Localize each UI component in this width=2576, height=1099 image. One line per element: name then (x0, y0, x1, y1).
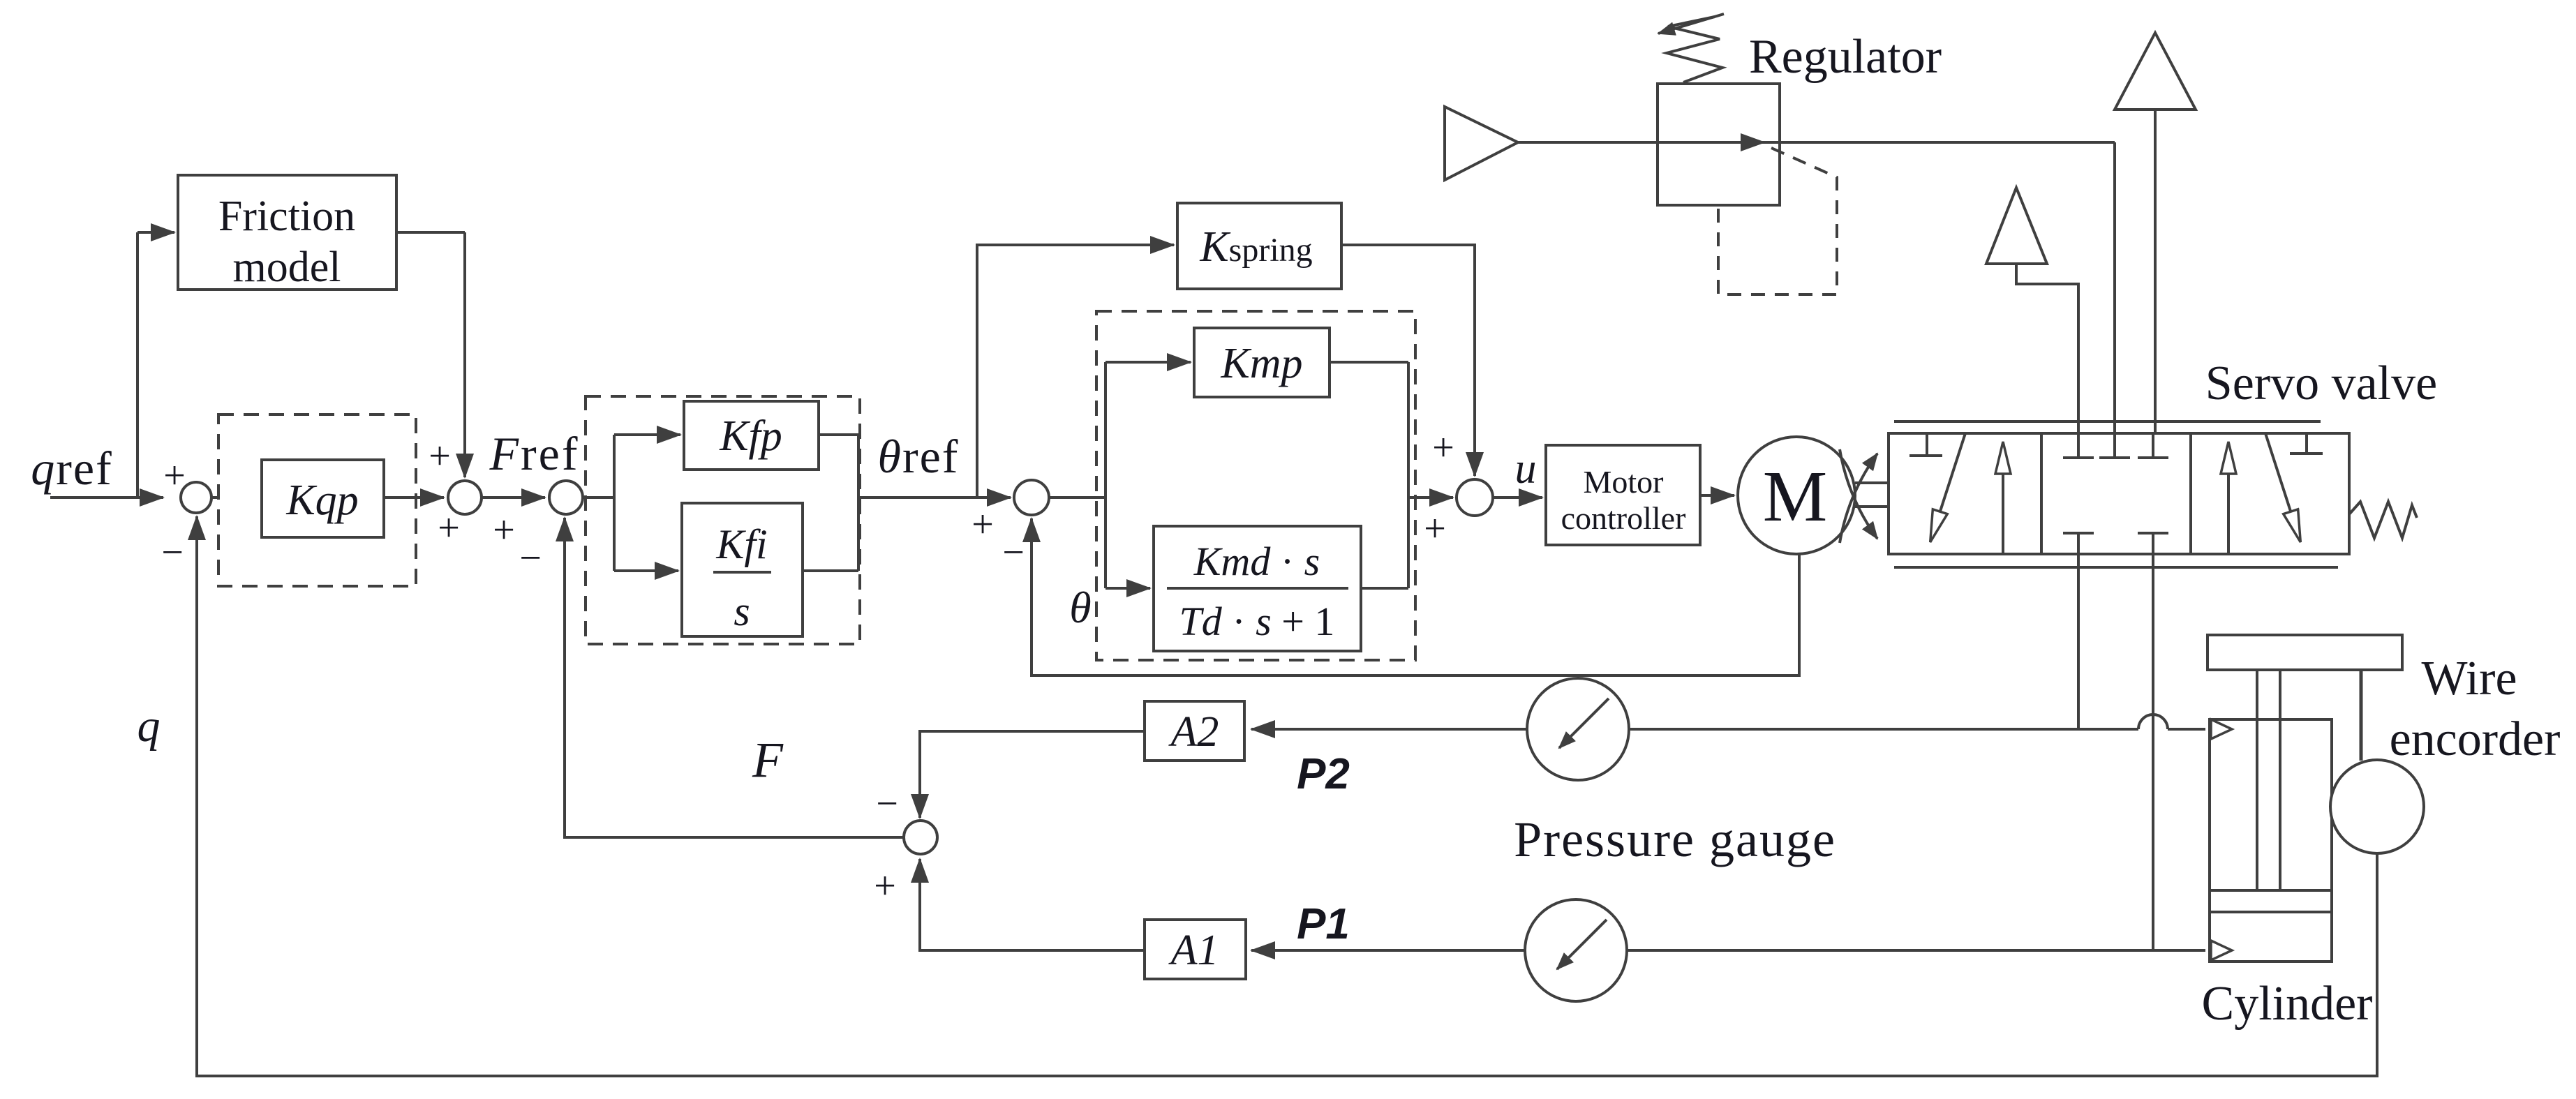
P2 line from valve to gauge (1630, 728, 2078, 731)
wire Kfi output (803, 569, 858, 572)
valve right chamber up arrow (2227, 442, 2230, 554)
S2 plus sign (bottom) (438, 507, 460, 550)
regulator label (1749, 30, 1942, 84)
S6 minus sign (876, 782, 898, 825)
svg-text:P1: P1 (1297, 900, 1350, 948)
wire Kmp/Kmd join vertical (1407, 362, 1410, 588)
svg-text:−: − (519, 537, 542, 580)
dashed box around Kmp,Kmd (1096, 311, 1415, 660)
svg-text:+: + (163, 454, 186, 498)
wire motor controller to M (1700, 494, 1734, 497)
valve right chamber blocked port (2290, 433, 2323, 454)
wire branch vertical (Kmp/Kmd input) (1104, 362, 1107, 588)
wire A1 to S6 (920, 859, 1145, 950)
valve divider left (2040, 433, 2043, 554)
wire branch to friction model (riser) (137, 232, 174, 498)
supply line through regulator (1518, 141, 2115, 144)
regulator spring symbol (1658, 14, 1724, 82)
svg-text:Wire: Wire (2421, 652, 2517, 705)
wire A2 to S6 (920, 731, 1145, 818)
node theta-ref label (878, 430, 960, 483)
pressure gauge 2 (1527, 678, 1629, 780)
svg-text:Motor: Motor (1584, 464, 1664, 500)
S4 plus sign (971, 503, 994, 546)
P2 line hop over valve line 2 (2078, 715, 2205, 729)
svg-text:encorder: encorder (2390, 712, 2561, 766)
svg-text:Cylinder: Cylinder (2202, 977, 2373, 1031)
regulator pilot dashed line (1718, 148, 1837, 294)
valve top port 3 (2138, 433, 2168, 458)
wire encoder label (2390, 652, 2561, 766)
svg-text:qref: qref (31, 442, 112, 495)
P1 line gauge to valve junction (1627, 949, 2153, 952)
valve top port 1 (2063, 433, 2094, 458)
svg-text:P2: P2 (1297, 750, 1350, 798)
wire branch vertical (Kfp/Kfi input) (613, 435, 616, 571)
wire Kmd output (1361, 587, 1408, 590)
wire Kfp output (819, 433, 858, 436)
block Motor controller (1546, 445, 1700, 545)
svg-text:−: − (161, 531, 184, 574)
node theta feedback label (1069, 583, 1091, 632)
wire Kqp to S2 (384, 496, 444, 499)
valve top port 2 (2099, 433, 2130, 458)
coupling arcs M to valve (1840, 449, 1889, 543)
wire S2 to S3 (482, 496, 545, 499)
svg-text:u: u (1515, 445, 1537, 493)
block Kfp (684, 401, 819, 470)
svg-text:Friction: Friction (218, 193, 355, 240)
svg-text:q: q (137, 701, 161, 752)
S3 plus sign (493, 509, 515, 552)
cylinder label (2202, 977, 2373, 1031)
S1 minus sign (161, 531, 184, 574)
valve bottom port 2 (2138, 533, 2168, 554)
summing junction S6 (904, 821, 937, 854)
node Fref label (489, 427, 579, 480)
summing junction S5 (1457, 479, 1493, 516)
S3 minus sign (519, 537, 542, 580)
valve line 1 down to P2 line (2077, 554, 2080, 729)
wire into Kmd (1105, 587, 1150, 590)
svg-text:Fref: Fref (489, 427, 579, 480)
valve top bar (1894, 420, 2321, 423)
summing junction S2 (448, 481, 482, 514)
block Kspring (1177, 203, 1341, 289)
valve left chamber blocked port (1909, 433, 1942, 456)
svg-text:+: + (493, 509, 515, 552)
wire into Kfp (614, 433, 680, 436)
svg-text:−: − (876, 782, 898, 825)
block Kmd s over Td s+1 (1154, 526, 1361, 651)
dashed box around Kfp,Kfi (586, 396, 860, 644)
svg-text:A1: A1 (1168, 927, 1219, 974)
node P1 label (1297, 900, 1350, 948)
wire regulator output down to valve (2113, 142, 2116, 433)
svg-text:model: model (233, 244, 341, 291)
P2 line into cylinder arrow (2211, 719, 2232, 739)
P1 line into cylinder arrow (2211, 941, 2232, 960)
wire S4 to branch (1049, 496, 1105, 499)
servo valve label (2205, 357, 2437, 410)
wire encoder circle (2330, 760, 2424, 853)
svg-text:+: + (874, 865, 896, 908)
wire S6 output to S3 (565, 518, 904, 837)
pressure gauge 1 (1525, 899, 1627, 1001)
cylinder piston (2210, 890, 2332, 912)
triangle source 3 (main supply) (2115, 33, 2196, 433)
wire Kspring output to S5 (1341, 245, 1475, 476)
wire into Kfi (614, 569, 678, 572)
dashed box around Kqp (218, 414, 416, 586)
block Kfi over s (682, 503, 803, 636)
svg-text:Td · s + 1: Td · s + 1 (1179, 599, 1335, 644)
valve return spring (2349, 502, 2417, 538)
valve left chamber diagonal arrow (1930, 433, 1965, 541)
summing junction S1 (181, 482, 211, 513)
block Kqp (262, 460, 384, 537)
svg-text:Pressure gauge: Pressure gauge (1514, 812, 1836, 867)
summing junction S3 (549, 481, 583, 514)
block Friction model (178, 175, 396, 291)
wire riser to Kspring (977, 245, 1174, 498)
svg-text:+: + (971, 503, 994, 546)
theta feedback wire (M to S4) (1032, 518, 1799, 675)
cylinder rod (2257, 670, 2280, 890)
cylinder cap (2208, 635, 2402, 670)
svg-text:controller: controller (1561, 500, 1686, 536)
S1 plus sign (163, 454, 186, 498)
wire join to S5 (1408, 496, 1453, 499)
block Kmp (1194, 328, 1330, 397)
node F label (752, 732, 784, 788)
wire Kfp/Kfi join vertical (857, 435, 860, 571)
S5 plus sign (top) (1432, 426, 1454, 470)
valve divider right (2189, 433, 2192, 554)
svg-text:−: − (1002, 531, 1025, 574)
valve bottom port 1 (2063, 533, 2094, 554)
node qref input label (31, 442, 112, 495)
wire S5 to motor controller (1493, 496, 1542, 499)
svg-text:Kqp: Kqp (285, 477, 358, 524)
svg-text:Kfp: Kfp (719, 412, 782, 460)
wire Kmp output (1330, 361, 1408, 364)
P2 line gauge to A2 (1251, 728, 1527, 731)
svg-text:Kfi: Kfi (715, 521, 767, 567)
wire q feedback (S1 bottom) (197, 516, 2377, 1076)
svg-text:F: F (752, 732, 784, 788)
summing junction S4 (1014, 480, 1049, 515)
S4 minus sign (1002, 531, 1025, 574)
valve right chamber diagonal arrow (2265, 433, 2300, 541)
svg-text:M: M (1763, 456, 1827, 537)
wire into Kmp (1105, 361, 1191, 364)
svg-text:Kmp: Kmp (1220, 340, 1302, 387)
triangle source 2 (1986, 188, 2078, 433)
valve body box (1889, 433, 2349, 554)
triangle source 1 (1445, 107, 1518, 180)
arrow inside regulator (1703, 141, 1764, 144)
svg-text:θref: θref (878, 430, 960, 483)
block A2 (1145, 701, 1244, 761)
cylinder body (2210, 719, 2332, 962)
wire S3 to branch (583, 496, 614, 499)
block A1 (1145, 920, 1246, 979)
svg-text:Servo valve: Servo valve (2205, 357, 2437, 410)
wire friction model output (396, 232, 465, 477)
P1 line from valve junction to cylinder (2153, 949, 2205, 952)
svg-text:Regulator: Regulator (1749, 30, 1942, 84)
valve bottom bar (1894, 566, 2338, 569)
svg-text:A2: A2 (1168, 708, 1219, 756)
node u label (1515, 445, 1537, 493)
valve line 2 down to P1 line (2152, 554, 2154, 950)
node q feedback label (137, 701, 161, 752)
S6 plus sign (874, 865, 896, 908)
P1 line gauge to A2 (1251, 949, 1525, 952)
valve left chamber up arrow (2002, 442, 2004, 554)
svg-text:Kmd · s: Kmd · s (1193, 539, 1320, 584)
svg-text:+: + (438, 507, 460, 550)
S5 plus sign (bottom) (1424, 507, 1446, 551)
svg-text:s: s (734, 588, 750, 634)
svg-text:+: + (429, 435, 451, 478)
node P2 label (1297, 750, 1350, 798)
block Regulator box (1658, 84, 1780, 205)
wire theta-ref line to S4 (858, 496, 1011, 499)
wire qref input (50, 496, 163, 499)
wire S1 to Kqp (211, 496, 258, 499)
S2 plus sign (top) (429, 435, 451, 478)
motor M circle (1738, 437, 1855, 554)
svg-text:θ: θ (1069, 583, 1091, 632)
svg-text:+: + (1432, 426, 1454, 470)
pressure gauge label (1514, 812, 1836, 867)
svg-text:+: + (1424, 507, 1446, 551)
encoder wire (2360, 670, 2363, 761)
